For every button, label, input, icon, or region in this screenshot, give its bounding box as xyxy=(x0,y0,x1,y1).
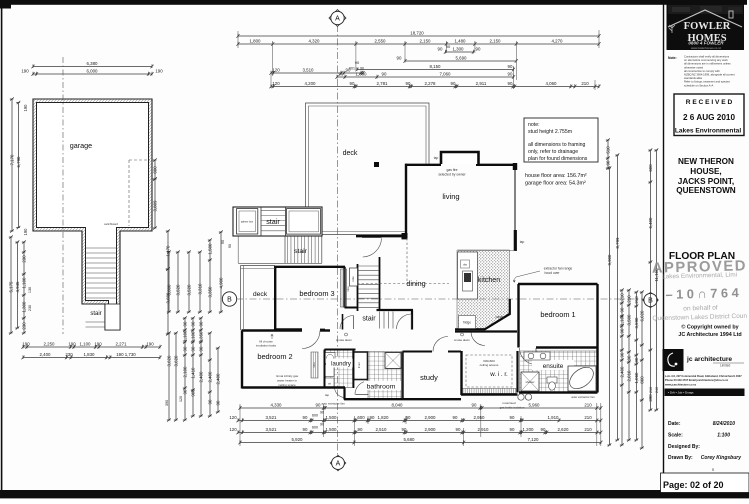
bedroom3 right wall lower part xyxy=(342,314,344,330)
svg-text:1,100: 1,100 xyxy=(80,341,92,346)
svg-text:7,120: 7,120 xyxy=(528,437,540,442)
svg-text:ceiling access: ceiling access xyxy=(480,363,499,367)
svg-text:4,320: 4,320 xyxy=(309,38,321,43)
kitchen bench front thick edge xyxy=(455,299,510,329)
stair hall top wall xyxy=(377,309,414,311)
right dim 9,900 xyxy=(607,166,612,446)
living top wall left of fireplace xyxy=(406,164,442,166)
svg-text:90: 90 xyxy=(320,411,324,415)
svg-text:2,900: 2,900 xyxy=(425,415,437,420)
top dim 5,690 xyxy=(397,55,518,62)
svg-text:8/24/2010: 8/24/2010 xyxy=(713,421,735,427)
svg-text:R E C E I V E D: R E C E I V E D xyxy=(686,99,733,106)
svg-text:1,800: 1,800 xyxy=(250,38,262,43)
dim 4,945 xyxy=(15,240,20,329)
dimension extension verticals bottom xyxy=(239,404,241,446)
svg-text:1,100: 1,100 xyxy=(182,330,187,342)
bedroom3 right wall xyxy=(343,267,345,308)
stair hall door arc xyxy=(397,314,412,329)
kitchen island dw + oven xyxy=(461,260,470,268)
svg-text:2,911: 2,911 xyxy=(476,81,487,86)
svg-text:2,250: 2,250 xyxy=(44,341,56,346)
svg-text:plan for found dimensions: plan for found dimensions xyxy=(528,156,588,162)
svg-text:90: 90 xyxy=(510,415,515,420)
svg-text:all dimensions are in millimet: all dimensions are in millimetres unless xyxy=(684,62,731,66)
stair lower treads vertical xyxy=(379,312,381,329)
section line B-B dash-dot horizontal xyxy=(236,298,646,300)
svg-text:3,500: 3,500 xyxy=(626,314,631,326)
svg-text:5,680: 5,680 xyxy=(404,437,416,442)
svg-text:90: 90 xyxy=(215,400,220,405)
right dim 8,799 xyxy=(615,153,620,441)
study bottom wall xyxy=(404,398,461,400)
right dim 3,500 chain xyxy=(626,288,631,441)
svg-text:▪ Drft ▪ Job ▪ Drwgs: ▪ Drft ▪ Job ▪ Drwgs xyxy=(668,391,694,395)
svg-text:190: 190 xyxy=(22,341,30,346)
svg-text:6,790: 6,790 xyxy=(16,156,21,168)
svg-text:1,500: 1,500 xyxy=(326,427,338,432)
laundry door arc xyxy=(335,387,346,398)
svg-text:bedroom 2: bedroom 2 xyxy=(257,352,292,361)
svg-text:90: 90 xyxy=(182,321,187,326)
empty landing compartment xyxy=(287,209,321,235)
svg-text:3,350: 3,350 xyxy=(207,286,212,298)
left dim 1,500/3,350 xyxy=(207,238,212,313)
svg-text:6,020: 6,020 xyxy=(639,310,644,322)
svg-text:4,200: 4,200 xyxy=(305,81,317,86)
svg-text:hood over: hood over xyxy=(544,271,560,275)
svg-text:90: 90 xyxy=(619,307,624,312)
svg-text:2,278: 2,278 xyxy=(425,81,437,86)
left dim lower 2,400 b xyxy=(207,331,212,417)
svg-text:5,920: 5,920 xyxy=(292,437,304,442)
svg-text:90: 90 xyxy=(626,355,631,360)
svg-text:5,690: 5,690 xyxy=(456,55,468,60)
svg-text:www.fowlerhomes.co.nz: www.fowlerhomes.co.nz xyxy=(691,46,722,50)
svg-text:1,500: 1,500 xyxy=(207,243,212,255)
svg-text:ensuite: ensuite xyxy=(543,363,564,370)
svg-text:90: 90 xyxy=(198,321,203,326)
svg-text:only, refer to drainage: only, refer to drainage xyxy=(528,149,578,155)
svg-text:3,520: 3,520 xyxy=(186,284,191,296)
svg-text:3,620: 3,620 xyxy=(173,355,178,367)
svg-text:1,820: 1,820 xyxy=(378,415,390,420)
svg-text:2,271: 2,271 xyxy=(116,341,128,346)
svg-text:230: 230 xyxy=(21,255,26,263)
grid bubble A top xyxy=(329,10,346,27)
svg-text:1,410: 1,410 xyxy=(190,367,195,379)
page bottom border bar xyxy=(0,490,749,498)
gas bottles circles xyxy=(518,394,524,400)
svg-text:6,000: 6,000 xyxy=(87,68,99,73)
upper stair treads compartment xyxy=(260,207,262,236)
svg-text:laundry: laundry xyxy=(331,362,351,368)
bathroom white label patch xyxy=(364,381,401,390)
svg-text:motorised: motorised xyxy=(502,401,516,405)
wall between wir and ensuite xyxy=(516,351,518,393)
wir door arc xyxy=(471,332,485,346)
fridge box xyxy=(459,316,476,329)
svg-text:2,550: 2,550 xyxy=(375,38,387,43)
grid bubble B right xyxy=(643,292,659,308)
svg-text:601: 601 xyxy=(349,67,355,71)
page top border bar xyxy=(0,0,747,5)
svg-text:JC Architecture 1994 Ltd: JC Architecture 1994 Ltd xyxy=(678,332,741,338)
svg-text:NEW THERON: NEW THERON xyxy=(678,157,734,166)
deck inner thin outline xyxy=(309,106,427,232)
bathroom bottom wall xyxy=(344,398,404,400)
svg-text:2,400: 2,400 xyxy=(207,371,212,383)
svg-text:90: 90 xyxy=(619,352,624,357)
wir wardrobe hatch strip xyxy=(462,389,516,394)
right dim 1,100 chain xyxy=(619,288,624,446)
svg-text:90: 90 xyxy=(510,427,515,432)
garage dim 3,600 lower xyxy=(165,267,170,335)
svg-text:2,400: 2,400 xyxy=(215,373,220,385)
bedroom1 top wall xyxy=(518,283,598,285)
svg-text:5,175: 5,175 xyxy=(8,281,13,293)
svg-text:90: 90 xyxy=(508,71,513,76)
svg-text:90: 90 xyxy=(451,81,456,86)
left dim 3,520 a xyxy=(175,250,180,313)
svg-text:90: 90 xyxy=(228,244,232,248)
svg-text:extractor fan range: extractor fan range xyxy=(544,267,573,271)
bedroom1 right wall xyxy=(596,284,598,348)
svg-text:standards alike: standards alike xyxy=(684,76,703,80)
svg-text:2,400: 2,400 xyxy=(40,352,52,357)
bottom dim row4 5,920 5,680 7,120 xyxy=(238,437,602,444)
svg-text:90: 90 xyxy=(350,81,355,86)
svg-text:gas bottle isolation: gas bottle isolation xyxy=(500,406,525,410)
jc black strip xyxy=(665,389,745,397)
svg-text:Lakes Environmental: Lakes Environmental xyxy=(675,128,741,135)
svg-text:90: 90 xyxy=(303,415,308,420)
bathroom tiled floor xyxy=(368,352,402,399)
laundry left wall xyxy=(324,350,326,388)
ensuite bottom wall xyxy=(519,391,598,393)
svg-text:1:100: 1:100 xyxy=(717,433,730,439)
svg-text:90: 90 xyxy=(634,357,639,362)
svg-text:insulation batts: insulation batts xyxy=(256,344,277,348)
svg-text:switchboard: switchboard xyxy=(104,222,118,226)
svg-text:1,100: 1,100 xyxy=(619,314,624,326)
svg-text:130: 130 xyxy=(28,287,32,293)
svg-text:3,510: 3,510 xyxy=(303,67,315,72)
svg-text:4,945: 4,945 xyxy=(15,281,20,293)
svg-text:kitchen: kitchen xyxy=(478,277,500,284)
hall wall above study xyxy=(403,351,433,353)
right dim 11,160 xyxy=(654,148,659,411)
top dim row 4,200 2,781 2,278 2,911 4,060 xyxy=(269,81,600,88)
right dim 510/90 xyxy=(605,138,610,169)
bedroom2 left wall xyxy=(241,331,243,389)
svg-text:1,300: 1,300 xyxy=(453,46,465,51)
svg-text:190: 190 xyxy=(68,341,76,346)
living top wall right of fireplace xyxy=(476,164,515,166)
svg-text:3,521: 3,521 xyxy=(266,415,278,420)
svg-text:90: 90 xyxy=(456,427,461,432)
note box xyxy=(524,118,598,162)
entry door arc at living wall xyxy=(363,238,382,257)
svg-text:fridge: fridge xyxy=(463,321,471,325)
svg-text:living: living xyxy=(442,192,459,201)
left dim lower 3,620 b xyxy=(173,331,178,421)
svg-text:2,100: 2,100 xyxy=(182,366,187,378)
wir top wall xyxy=(485,330,517,332)
laundry separating wall xyxy=(353,350,355,389)
stair dims row1 xyxy=(21,341,161,348)
svg-text:90: 90 xyxy=(508,81,513,86)
svg-text:900: 900 xyxy=(190,389,195,397)
svg-text:600: 600 xyxy=(152,166,157,174)
left dim lower 3,620 a xyxy=(166,331,171,421)
svg-text:3,590: 3,590 xyxy=(634,317,639,329)
right dim 3,590 chain xyxy=(634,290,639,441)
svg-text:garage floor area: 54.3m²: garage floor area: 54.3m² xyxy=(525,181,586,187)
bedroom3 top wall xyxy=(274,266,345,268)
stair shaft left wall xyxy=(357,264,359,311)
garage dim 6,380 xyxy=(31,61,153,68)
svg-text:1,500: 1,500 xyxy=(326,415,338,420)
svg-text:robe: robe xyxy=(346,286,350,292)
svg-text:www.jcarchitecture.co.nz: www.jcarchitecture.co.nz xyxy=(665,383,697,387)
linen closet between laundry and bathroom xyxy=(354,352,368,380)
svg-text:90: 90 xyxy=(619,328,624,333)
svg-text:1,910: 1,910 xyxy=(548,415,560,420)
svg-text:230: 230 xyxy=(28,305,32,311)
svg-text:– 1 0 ∩ 7 6 4: – 1 0 ∩ 7 6 4 xyxy=(665,285,740,302)
svg-text:5,960: 5,960 xyxy=(529,402,541,407)
svg-text:600: 600 xyxy=(312,426,318,430)
svg-text:B: B xyxy=(227,297,232,304)
grid line A dash-dot vertical xyxy=(337,25,339,456)
svg-text:dining: dining xyxy=(406,279,425,288)
svg-text:stair: stair xyxy=(90,311,101,317)
received stamp box xyxy=(674,94,744,136)
svg-text:6,380: 6,380 xyxy=(87,61,99,66)
svg-text:jc architecture: jc architecture xyxy=(686,356,732,363)
right dim 600/6,400 xyxy=(648,148,653,411)
svg-text:Contractors shall verify all d: Contractors shall verify all dimensions xyxy=(684,55,730,59)
lower entry stair treads vertical xyxy=(287,237,289,264)
svg-text:2,620: 2,620 xyxy=(558,427,570,432)
svg-text:210: 210 xyxy=(626,295,631,303)
svg-text:Lots 3-6, 227 Commercial Road,: Lots 3-6, 227 Commercial Road, Gibbsland… xyxy=(665,374,742,378)
svg-text:7,060: 7,060 xyxy=(440,71,452,76)
svg-text:A: A xyxy=(335,16,340,23)
left dim lower 1,100 chain xyxy=(182,316,187,421)
svg-text:shower: shower xyxy=(525,380,534,384)
svg-text:90: 90 xyxy=(406,415,411,420)
svg-text:4,330: 4,330 xyxy=(271,402,283,407)
svg-text:Corey Kingsbury: Corey Kingsbury xyxy=(701,455,742,461)
bottom dim row3 xyxy=(229,427,602,434)
overall top dim 18,720 xyxy=(236,30,600,37)
bedroom2 robe hatch strip xyxy=(311,352,318,378)
svg-text:tap: tap xyxy=(325,393,330,397)
fowler homes roof glyph xyxy=(668,10,742,27)
wall bedroom3 to stair xyxy=(345,307,359,309)
ensuite toilet xyxy=(547,377,557,383)
svg-text:2,400: 2,400 xyxy=(198,371,203,383)
svg-text:90: 90 xyxy=(402,427,407,432)
bedroom1 door white patch and arc xyxy=(520,348,537,365)
svg-text:90: 90 xyxy=(370,415,375,420)
svg-text:water heater in: water heater in xyxy=(277,379,297,383)
study left wall / bathroom right wall xyxy=(401,352,403,400)
svg-text:all dimensions to framing: all dimensions to framing xyxy=(528,142,585,148)
svg-text:FOWLER: FOWLER xyxy=(684,21,731,32)
deck post xyxy=(374,162,379,167)
living left wall xyxy=(405,164,407,234)
svg-text:QUEENSTOWN: QUEENSTOWN xyxy=(676,186,736,195)
grid bubble A bottom xyxy=(330,455,346,471)
svg-text:HOUSE,: HOUSE, xyxy=(690,167,721,176)
title panel left border xyxy=(663,3,665,491)
svg-text:3,809: 3,809 xyxy=(152,200,157,212)
palmer box compartment xyxy=(237,209,258,234)
svg-text:1,200: 1,200 xyxy=(523,427,535,432)
svg-text:9,900: 9,900 xyxy=(607,254,612,266)
svg-text:1,300: 1,300 xyxy=(21,301,26,313)
dim small chain xyxy=(21,240,26,334)
svg-text:600: 600 xyxy=(357,415,365,420)
svg-text:w. i . r.: w. i . r. xyxy=(489,371,508,378)
svg-text:Designed By:: Designed By: xyxy=(668,444,700,450)
bedroom1 bottom wall xyxy=(536,346,598,348)
left dim 3,310 xyxy=(197,250,202,313)
svg-text:Phone 03 349 4737 Email jcarc: Phone 03 349 4737 Email jcarchitecture@x… xyxy=(665,378,729,382)
wall below living-left with corner post xyxy=(356,235,407,237)
svg-text:90: 90 xyxy=(320,423,324,427)
svg-text:on site before commencing any: on site before commencing any work xyxy=(684,58,728,62)
svg-text:3,521: 3,521 xyxy=(266,427,278,432)
svg-text:90: 90 xyxy=(382,71,387,76)
svg-text:2 6 AUG 2010: 2 6 AUG 2010 xyxy=(683,113,735,122)
garage roof dashed outline xyxy=(129,160,150,226)
laundry top wall xyxy=(325,349,356,351)
svg-text:Scale:: Scale: xyxy=(668,433,683,439)
living right wall upper thin with corner post xyxy=(513,163,517,170)
kitchen stippled benchtop area xyxy=(457,250,510,329)
svg-text:240: 240 xyxy=(655,387,659,393)
svg-text:18,720: 18,720 xyxy=(410,30,424,35)
svg-text:90: 90 xyxy=(508,64,513,69)
svg-text:4,060: 4,060 xyxy=(546,81,558,86)
svg-text:auto extractor fan: auto extractor fan xyxy=(321,402,345,406)
top dim 3,510 xyxy=(269,67,364,74)
page left border xyxy=(1,0,3,493)
svg-text:schedule on Section A-A: schedule on Section A-A xyxy=(684,83,713,87)
svg-text:4,900: 4,900 xyxy=(218,277,223,289)
svg-text:90: 90 xyxy=(355,60,360,65)
bedroom3 left wall xyxy=(274,267,276,330)
svg-text:190: 190 xyxy=(146,341,154,346)
dining dashed ceiling line xyxy=(357,283,449,285)
svg-text:garage: garage xyxy=(70,141,92,150)
svg-text:robe: robe xyxy=(351,276,355,282)
stair hall right wall xyxy=(411,310,413,330)
svg-text:house floor area: 156.7m²: house floor area: 156.7m² xyxy=(525,173,587,179)
svg-text:wt: wt xyxy=(328,382,331,386)
svg-text:NZBC/NZ 3604:1999, alongside a: NZBC/NZ 3604:1999, alongside all current xyxy=(684,73,735,77)
bedroom2 door arc xyxy=(302,331,320,349)
svg-text:510: 510 xyxy=(605,146,610,154)
svg-text:210: 210 xyxy=(634,296,639,304)
svg-text:210: 210 xyxy=(584,427,592,432)
svg-text:7,170: 7,170 xyxy=(9,154,14,166)
svg-text:1,060: 1,060 xyxy=(634,372,639,384)
svg-text:2,010: 2,010 xyxy=(626,370,631,382)
svg-text:210: 210 xyxy=(584,402,592,407)
svg-text:all construction to comply wit: all construction to comply with xyxy=(684,69,720,73)
smoke alarm symbol near study xyxy=(461,333,464,336)
svg-text:note:: note: xyxy=(528,122,540,128)
robe box left of stair shaft xyxy=(350,268,358,286)
left dim lower short xyxy=(215,346,220,413)
garage centreline grid A dashed xyxy=(62,57,64,334)
laundry appliances xyxy=(325,353,335,364)
svg-text:Drawn By:: Drawn By: xyxy=(668,455,693,461)
svg-text:Page: 02 of 20: Page: 02 of 20 xyxy=(663,480,724,490)
small deck thin edges xyxy=(240,266,242,331)
bathroom door arc xyxy=(355,381,369,395)
svg-text:390: 390 xyxy=(648,394,653,402)
svg-text:190: 190 xyxy=(94,341,102,346)
svg-text:90: 90 xyxy=(397,55,402,60)
bedroom2 top wall xyxy=(242,329,303,331)
svg-text:smoke alarm: smoke alarm xyxy=(454,338,471,342)
svg-text:selected by owner: selected by owner xyxy=(438,173,466,177)
bedroom3 bottom wall xyxy=(275,328,302,330)
svg-text:190: 190 xyxy=(23,228,28,236)
svg-text:deck: deck xyxy=(253,291,268,298)
svg-text:90: 90 xyxy=(358,427,363,432)
ensuite right wall xyxy=(596,348,598,393)
garage stair treads xyxy=(86,247,117,249)
svg-text:2,900: 2,900 xyxy=(425,427,437,432)
svg-text:90: 90 xyxy=(476,46,481,51)
svg-text:90: 90 xyxy=(207,399,212,404)
garage dim 3,809 xyxy=(152,177,157,229)
svg-text:gas fire: gas fire xyxy=(446,168,457,172)
top dim row 2 xyxy=(236,38,600,45)
svg-text:860: 860 xyxy=(639,376,644,384)
approved stamp group xyxy=(651,258,748,322)
svg-text:6,400: 6,400 xyxy=(648,217,653,229)
svg-text:230: 230 xyxy=(21,322,26,330)
svg-text:190: 190 xyxy=(155,68,163,73)
svg-text:90: 90 xyxy=(190,346,195,351)
svg-text:390: 390 xyxy=(165,400,169,406)
svg-text:600: 600 xyxy=(648,164,653,172)
laundry white label patch xyxy=(326,359,355,368)
kitchen top boundary thin line xyxy=(458,250,516,252)
svg-text:190 1,730: 190 1,730 xyxy=(116,352,136,357)
top dim 1,300 xyxy=(438,46,481,53)
svg-text:2,910: 2,910 xyxy=(478,427,490,432)
svg-text:linen: linen xyxy=(357,362,361,368)
deck outer thin outline xyxy=(306,103,430,235)
svg-text:study: study xyxy=(420,373,438,382)
stair dims row2 xyxy=(21,352,161,359)
wall connector bedroom2 to bottom xyxy=(343,388,345,400)
entry block outer box xyxy=(233,207,322,236)
svg-text:robe: robe xyxy=(312,362,316,368)
svg-text:210: 210 xyxy=(649,387,653,393)
left dim 3,600 xyxy=(166,250,171,313)
bathroom shower xyxy=(385,353,401,369)
